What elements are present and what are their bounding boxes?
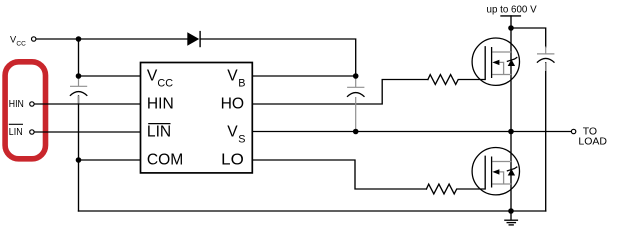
svg-text:LO: LO bbox=[221, 152, 244, 169]
svg-text:HIN: HIN bbox=[147, 96, 174, 113]
svg-text:LIN: LIN bbox=[9, 127, 23, 138]
svg-text:V: V bbox=[147, 68, 158, 85]
svg-text:LOAD: LOAD bbox=[578, 135, 607, 147]
svg-text:CC: CC bbox=[157, 77, 173, 89]
svg-text:up to 600 V: up to 600 V bbox=[487, 4, 538, 15]
svg-text:LIN: LIN bbox=[147, 124, 171, 141]
svg-text:CC: CC bbox=[16, 40, 26, 47]
svg-text:B: B bbox=[238, 77, 245, 89]
svg-text:HO: HO bbox=[221, 96, 245, 113]
svg-text:V: V bbox=[227, 68, 238, 85]
svg-text:HIN: HIN bbox=[9, 99, 24, 110]
svg-text:COM: COM bbox=[147, 152, 183, 169]
svg-text:V: V bbox=[227, 124, 238, 141]
svg-text:S: S bbox=[238, 133, 245, 145]
